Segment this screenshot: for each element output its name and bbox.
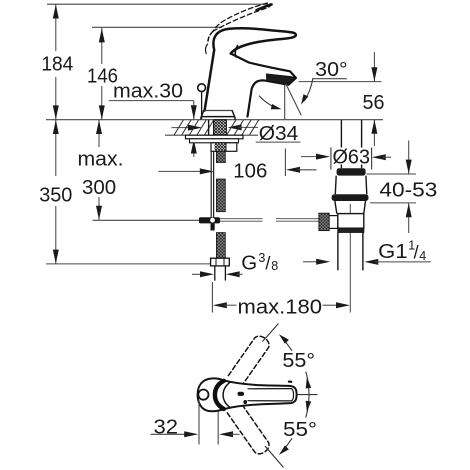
svg-text:4: 4 [419, 249, 426, 263]
svg-text:30°: 30° [315, 58, 347, 81]
svg-text:max.30: max.30 [113, 80, 183, 103]
svg-text:40-53: 40-53 [379, 178, 437, 201]
svg-text:300: 300 [82, 176, 116, 199]
svg-text:3: 3 [258, 251, 265, 265]
svg-text:8: 8 [271, 259, 278, 273]
svg-text:G1: G1 [378, 240, 407, 263]
svg-text:55°: 55° [282, 349, 315, 372]
svg-text:56: 56 [363, 91, 385, 114]
svg-text:Ø63: Ø63 [333, 145, 371, 168]
svg-text:/: / [414, 243, 419, 263]
svg-text:184: 184 [41, 53, 73, 76]
svg-text:G: G [241, 252, 257, 275]
svg-text:max.: max. [78, 148, 124, 171]
svg-text:/: / [265, 253, 270, 273]
svg-text:Ø34: Ø34 [259, 122, 299, 145]
svg-text:55°: 55° [283, 418, 317, 441]
svg-text:106: 106 [233, 159, 267, 182]
svg-text:350: 350 [39, 183, 72, 206]
svg-text:32: 32 [154, 415, 179, 438]
svg-text:max.180: max.180 [238, 295, 323, 318]
